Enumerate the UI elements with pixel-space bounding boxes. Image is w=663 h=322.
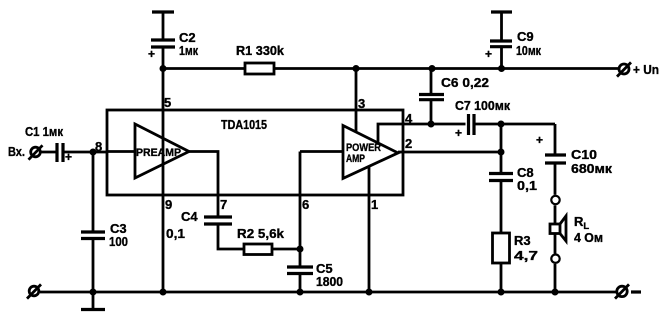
node rail / C3 junction — [90, 289, 97, 296]
wire pin1 vertical — [368, 166, 371, 292]
ground (top, at C2) — [152, 10, 174, 13]
svg-text:4,7: 4,7 — [514, 248, 538, 263]
svg-text:+: + — [536, 133, 543, 147]
svg-text:1800: 1800 — [316, 274, 343, 289]
node rail / pin9 junction — [160, 289, 167, 296]
svg-text:9: 9 — [165, 197, 172, 212]
op-amp POWER AMP triangle — [343, 126, 398, 179]
node top rail / C6 junction — [429, 65, 436, 72]
wire C2 top stub — [162, 12, 165, 40]
terminal bottom right — [615, 284, 641, 298]
wire pin3 vertical — [355, 68, 358, 132]
node top rail / pin3 junction — [353, 65, 360, 72]
capacitor C10 — [536, 133, 613, 176]
capacitor C6 — [419, 68, 489, 124]
capacitor C7 — [455, 98, 510, 140]
wire top +Un rail — [163, 67, 619, 70]
capacitor C5 — [287, 261, 343, 292]
node rail / speaker junction — [552, 289, 559, 296]
resistor R2 — [237, 226, 285, 255]
wire to rail — [554, 264, 557, 292]
ground (bottom left) — [81, 292, 105, 310]
svg-text:5: 5 — [164, 95, 171, 110]
wire speaker to bottom terminal — [554, 234, 557, 254]
pin labels — [95, 95, 413, 212]
node pin2 / C8 junction — [498, 149, 505, 156]
capacitor C2 — [148, 30, 198, 61]
svg-text:C9: C9 — [517, 29, 534, 44]
node speaker bottom terminal — [551, 255, 559, 263]
svg-text:Вх.: Вх. — [8, 144, 25, 159]
svg-text:6: 6 — [302, 197, 309, 212]
svg-text:+: + — [148, 47, 155, 61]
wire pin5/pin9 vertical — [162, 47, 165, 292]
svg-text:C4: C4 — [181, 209, 198, 224]
wire C10 to speaker — [554, 163, 557, 195]
svg-text:100: 100 — [109, 234, 128, 249]
node R2 / C5 junction — [297, 246, 304, 253]
wire pin4 interior — [378, 124, 403, 143]
capacitor C1 — [25, 124, 72, 164]
svg-text:C1 1мк: C1 1мк — [25, 124, 63, 139]
node speaker top terminal — [551, 196, 559, 204]
capacitor C4 — [166, 209, 232, 241]
wire C7 to output node — [474, 123, 555, 126]
svg-text:TDA1015: TDA1015 — [221, 117, 267, 132]
svg-text:+: + — [455, 126, 462, 140]
svg-text:0,1: 0,1 — [517, 178, 537, 193]
svg-text:C6 0,22: C6 0,22 — [441, 75, 489, 90]
wire C8 to R3 — [500, 181, 503, 234]
wire C1 to pin8 — [63, 151, 107, 154]
wire pin6 vertical — [299, 152, 302, 268]
svg-text:0,1: 0,1 — [166, 226, 185, 241]
node rail / R3 junction — [498, 289, 505, 296]
svg-text:+ Un: + Un — [633, 62, 659, 77]
node top rail / C2 junction — [160, 65, 167, 72]
svg-text:2: 2 — [405, 136, 412, 151]
wire input to C1 — [41, 151, 58, 154]
wire pin6 to power amp input — [300, 150, 343, 153]
svg-text:R1 330k: R1 330k — [236, 43, 285, 58]
resistor R3 — [493, 233, 539, 263]
op-amp PREAMP triangle — [135, 124, 189, 178]
wire R3 to rail — [500, 263, 503, 292]
svg-text:PREAMP: PREAMP — [136, 147, 181, 159]
wire preamp output to pin7 — [189, 152, 218, 196]
capacitor C3 — [81, 152, 128, 292]
wire R2 to pin6 node — [272, 248, 300, 251]
svg-text:1мк: 1мк — [179, 43, 198, 58]
wire C4 to R2 — [218, 224, 244, 249]
svg-text:4 Ом: 4 Ом — [574, 230, 603, 245]
svg-text:7: 7 — [220, 197, 227, 212]
capacitor C8 — [489, 165, 537, 193]
svg-text:680мк: 680мк — [571, 161, 613, 176]
svg-text:+: + — [485, 47, 492, 61]
svg-text:3: 3 — [358, 96, 365, 111]
node pin4 wire / C6 junction — [428, 121, 435, 128]
IC U1 TDA1015 box — [107, 110, 403, 195]
svg-text:1: 1 — [371, 197, 378, 212]
svg-text:AMP: AMP — [346, 153, 365, 165]
terminal +Un — [617, 62, 659, 77]
node rail / pin1 junction — [366, 289, 373, 296]
terminal input Bx — [8, 144, 43, 160]
wire pin2 to output node — [398, 151, 501, 154]
resistor R1 — [236, 43, 285, 74]
node top rail / C9 junction — [498, 65, 505, 72]
wire to speaker — [554, 205, 557, 224]
wire pin8 inside — [107, 150, 135, 153]
svg-text:10мк: 10мк — [516, 43, 541, 58]
ground (top, at C9) — [491, 10, 512, 13]
node rail / C5 junction — [297, 289, 304, 296]
svg-text:C10: C10 — [571, 147, 597, 162]
svg-text:R3: R3 — [514, 233, 531, 248]
capacitor C9 — [485, 12, 541, 68]
wire pin4 to C7 — [403, 123, 466, 126]
node output / C7 junction — [498, 121, 505, 128]
svg-text:C7 100мк: C7 100мк — [455, 98, 510, 113]
speaker RL — [550, 214, 603, 245]
wire bottom common rail — [40, 291, 617, 294]
svg-text:R2 5,6k: R2 5,6k — [237, 226, 285, 241]
wire output to C10 — [554, 124, 557, 155]
wire output node vertical — [500, 124, 503, 174]
svg-text:4: 4 — [405, 111, 413, 126]
wire pin7 down — [217, 195, 220, 217]
terminal bottom left — [27, 284, 41, 298]
node input / C3 junction — [90, 149, 97, 156]
